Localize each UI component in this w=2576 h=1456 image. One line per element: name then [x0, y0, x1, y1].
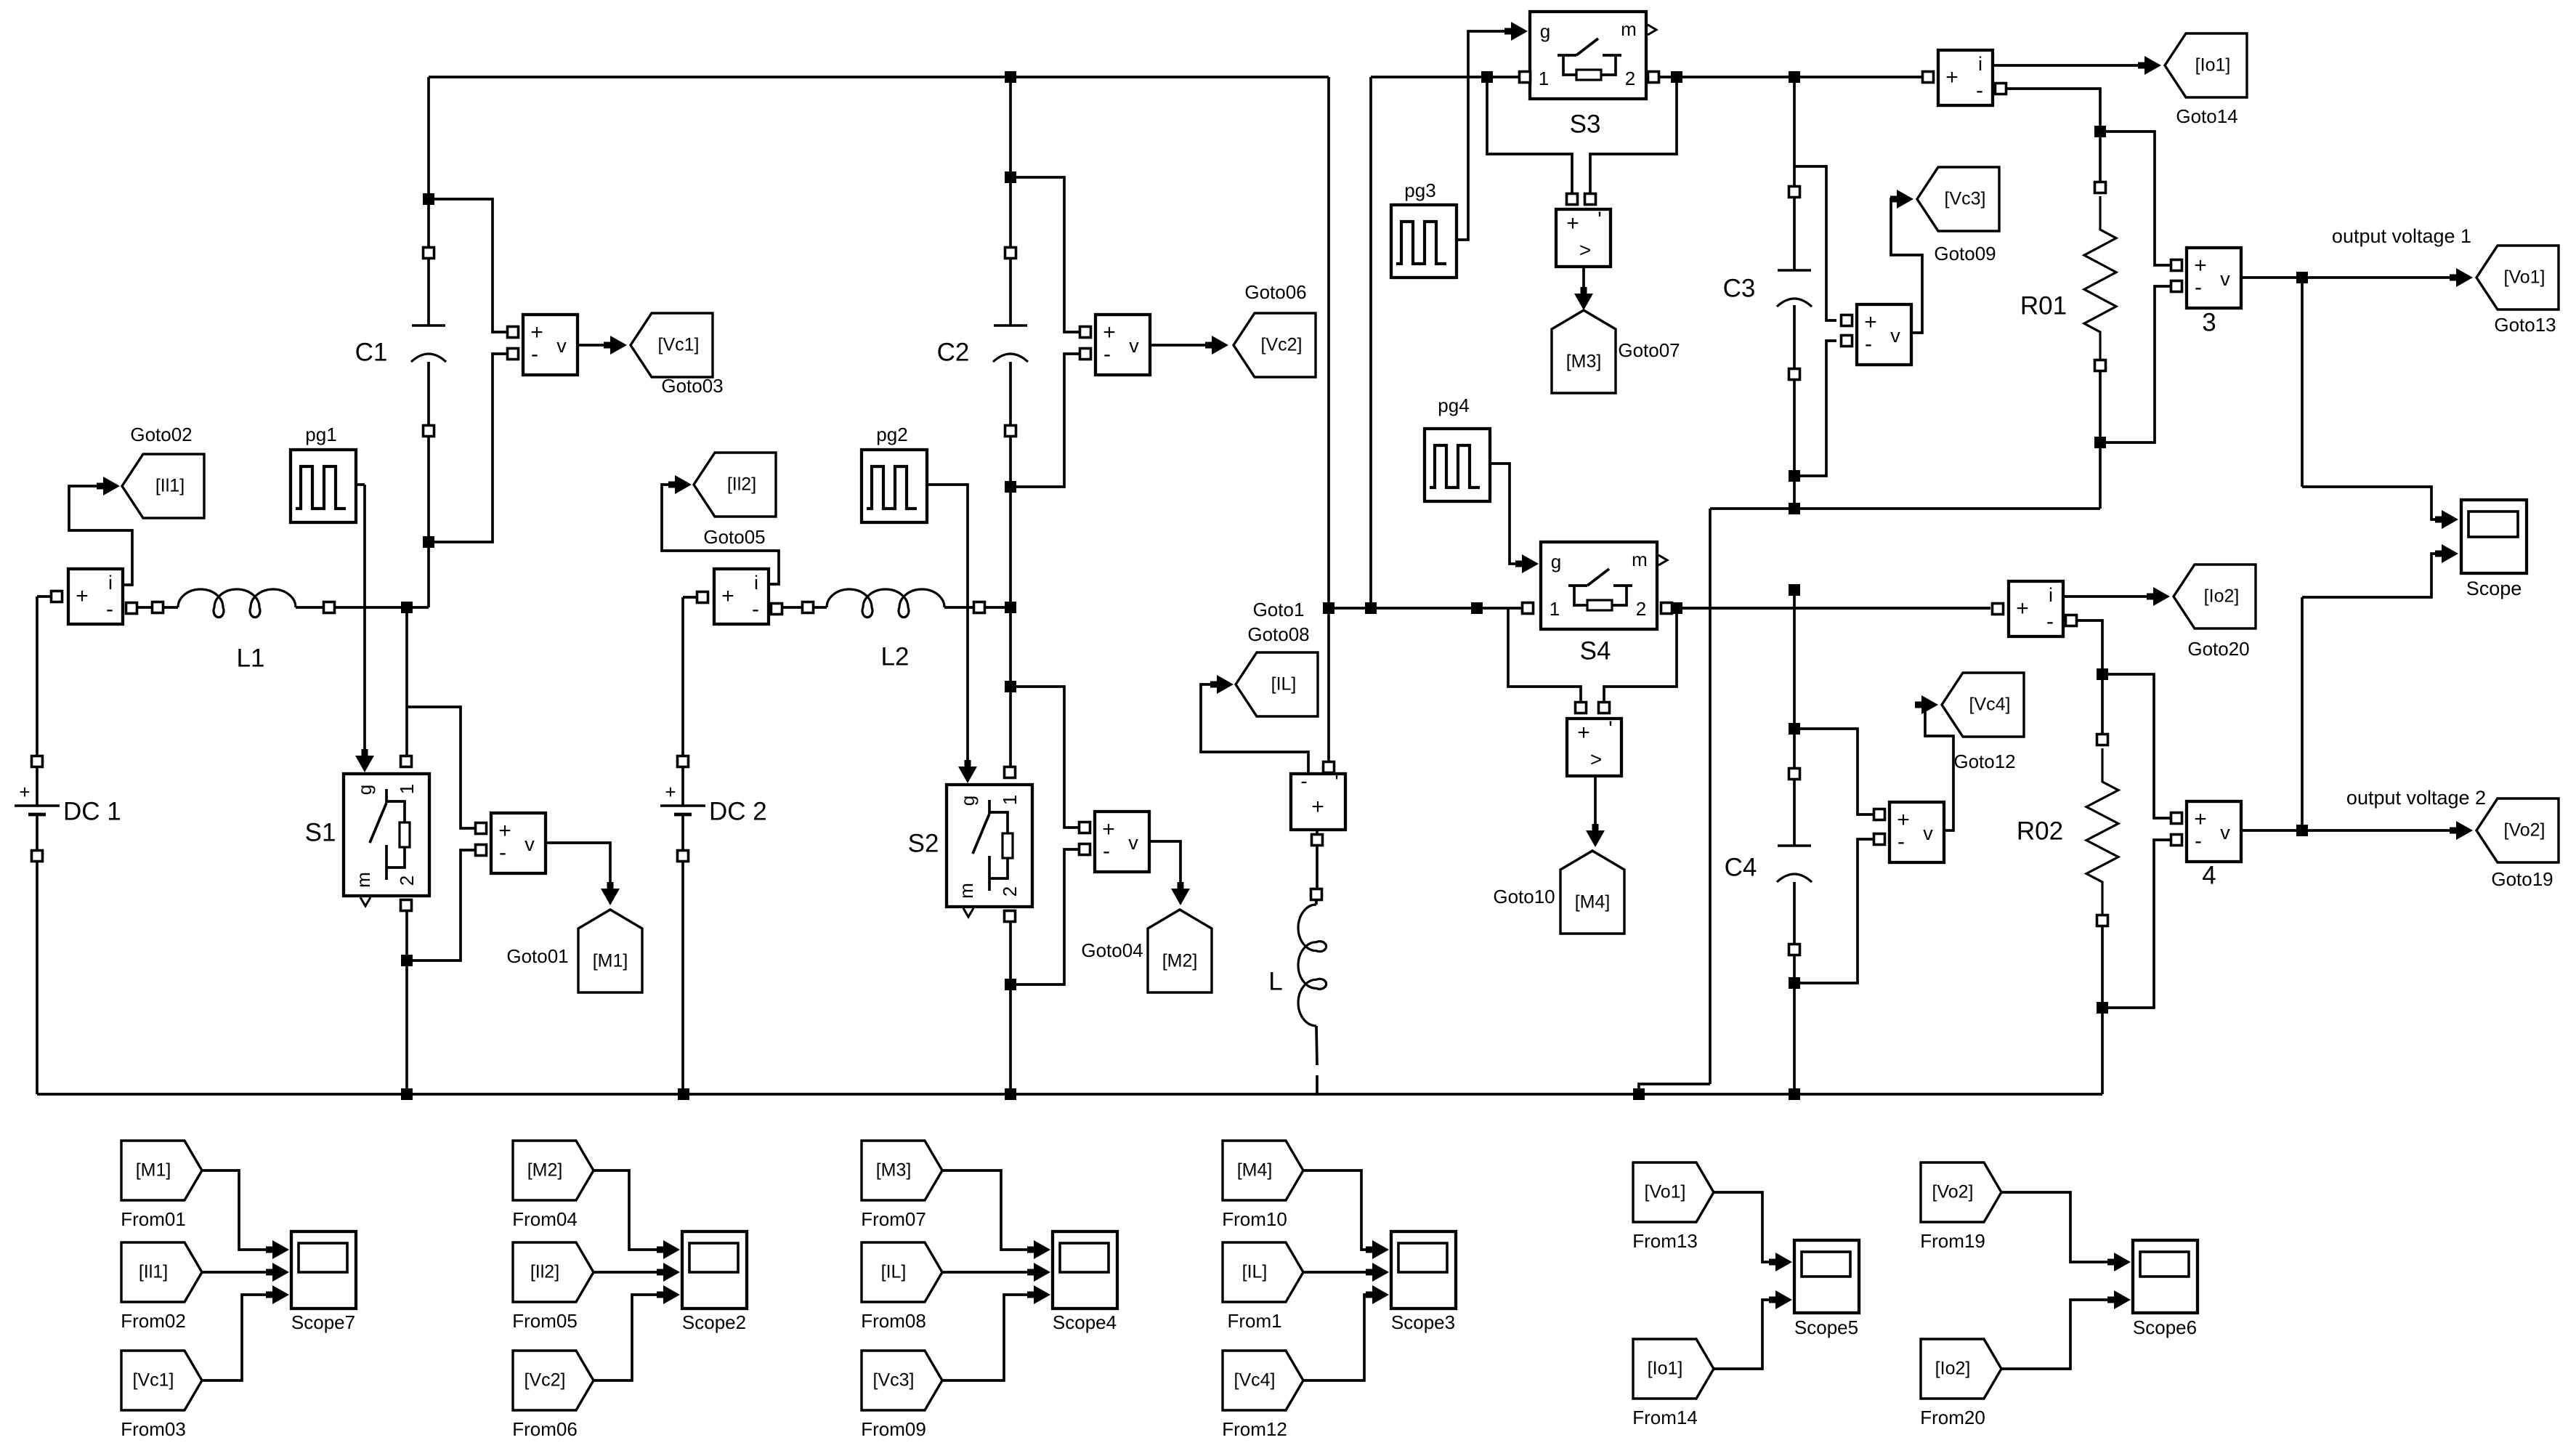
svg-text:From1: From1	[1227, 1310, 1281, 1332]
svg-text:Scope: Scope	[2466, 578, 2522, 599]
svg-text:[M4]: [M4]	[1575, 892, 1611, 913]
svg-text:1: 1	[396, 784, 418, 794]
svg-text:Goto20: Goto20	[2187, 638, 2249, 660]
svg-text:From04: From04	[512, 1208, 578, 1230]
svg-text:Goto12: Goto12	[1953, 751, 2015, 772]
svg-text:[Io2]: [Io2]	[2204, 586, 2240, 607]
svg-text:[Il2]: [Il2]	[727, 474, 756, 495]
svg-text:Goto01: Goto01	[506, 945, 568, 967]
svg-text:From19: From19	[1920, 1230, 1985, 1252]
svg-text:': '	[1608, 717, 1613, 741]
svg-text:Scope7: Scope7	[291, 1311, 355, 1333]
svg-text:i: i	[1978, 53, 1982, 75]
svg-text:-: -	[752, 597, 759, 621]
svg-text:From10: From10	[1222, 1208, 1287, 1230]
svg-text:L1: L1	[237, 644, 265, 672]
svg-text:-: -	[1897, 830, 1905, 854]
svg-text:From12: From12	[1222, 1418, 1287, 1440]
svg-text:Goto08: Goto08	[1247, 623, 1309, 645]
svg-text:[M3]: [M3]	[876, 1160, 912, 1181]
svg-text:[Io1]: [Io1]	[2195, 55, 2231, 76]
svg-text:+: +	[1864, 310, 1877, 334]
svg-text:v: v	[1923, 822, 1933, 844]
svg-text:[Vc2]: [Vc2]	[524, 1370, 566, 1391]
svg-text:From09: From09	[861, 1418, 926, 1440]
svg-text:1: 1	[1539, 68, 1549, 89]
svg-text:Goto05: Goto05	[703, 526, 765, 548]
svg-text:Scope3: Scope3	[1391, 1311, 1455, 1333]
svg-text:pg3: pg3	[1404, 179, 1435, 201]
svg-text:Scope6: Scope6	[2133, 1317, 2197, 1338]
svg-text:[IL]: [IL]	[881, 1262, 907, 1282]
svg-text:L2: L2	[881, 642, 910, 671]
svg-text:From02: From02	[121, 1310, 186, 1332]
svg-text:C2: C2	[937, 338, 970, 366]
svg-text:Goto07: Goto07	[1618, 339, 1680, 361]
svg-text:From06: From06	[512, 1418, 578, 1440]
svg-text:[M3]: [M3]	[1566, 352, 1602, 372]
svg-text:+: +	[498, 819, 511, 843]
svg-text:2: 2	[1625, 68, 1635, 89]
svg-text:output voltage 1: output voltage 1	[2332, 225, 2471, 247]
svg-text:From03: From03	[121, 1418, 186, 1440]
svg-text:-: -	[2195, 275, 2202, 299]
svg-text:>: >	[1579, 238, 1591, 261]
svg-text:+: +	[1102, 817, 1115, 841]
svg-text:[Vo1]: [Vo1]	[1645, 1182, 1686, 1202]
svg-text:C3: C3	[1723, 274, 1756, 302]
svg-text:[Io1]: [Io1]	[1648, 1359, 1683, 1379]
svg-text:Scope5: Scope5	[1794, 1317, 1858, 1338]
svg-text:Goto19: Goto19	[2491, 868, 2553, 890]
svg-text:[Vc4]: [Vc4]	[1969, 695, 2011, 715]
svg-text:[Vc3]: [Vc3]	[873, 1370, 915, 1391]
svg-text:Goto1: Goto1	[1253, 599, 1305, 620]
svg-text:-: -	[1103, 342, 1111, 366]
svg-text:L: L	[1268, 967, 1282, 995]
svg-text:[Il2]: [Il2]	[530, 1262, 559, 1282]
svg-text:Scope2: Scope2	[682, 1311, 746, 1333]
svg-text:C4: C4	[1725, 853, 1757, 881]
svg-text:+: +	[1945, 65, 1959, 89]
svg-text:R01: R01	[2020, 291, 2067, 320]
svg-text:Goto14: Goto14	[2176, 105, 2237, 127]
svg-text:S2: S2	[908, 829, 939, 857]
svg-text:DC 2: DC 2	[709, 797, 767, 825]
svg-text:-: -	[106, 597, 113, 621]
svg-text:-: -	[531, 342, 538, 366]
svg-text:R02: R02	[2017, 817, 2063, 845]
svg-text:i: i	[108, 572, 113, 594]
svg-text:Scope4: Scope4	[1053, 1311, 1117, 1333]
svg-text:S4: S4	[1580, 636, 1611, 665]
svg-text:Goto06: Goto06	[1244, 281, 1306, 303]
svg-text:v: v	[524, 833, 535, 855]
svg-text:S3: S3	[1570, 110, 1601, 138]
svg-text:-: -	[1976, 78, 1983, 102]
svg-text:+: +	[2194, 807, 2207, 831]
svg-text:v: v	[1129, 335, 1139, 357]
svg-text:[Vo2]: [Vo2]	[2504, 820, 2545, 841]
svg-text:g: g	[957, 796, 979, 806]
svg-text:v: v	[1128, 832, 1138, 854]
svg-text:From08: From08	[861, 1310, 926, 1332]
svg-text:1: 1	[1550, 598, 1560, 620]
svg-text:[Vc1]: [Vc1]	[133, 1370, 174, 1391]
svg-text:Goto02: Goto02	[130, 424, 192, 445]
svg-text:+: +	[1103, 320, 1116, 344]
svg-text:Goto04: Goto04	[1081, 939, 1143, 961]
svg-text:m: m	[352, 872, 374, 888]
svg-text:+: +	[1897, 808, 1910, 832]
svg-text:Goto09: Goto09	[1934, 243, 1996, 264]
svg-text:[M4]: [M4]	[1237, 1160, 1273, 1181]
svg-text:[IL]: [IL]	[1242, 1262, 1268, 1282]
svg-text:g: g	[354, 785, 376, 795]
svg-text:From13: From13	[1632, 1230, 1698, 1252]
svg-text:-: -	[2046, 610, 2054, 634]
svg-text:[Il1]: [Il1]	[139, 1262, 168, 1282]
svg-text:From07: From07	[861, 1208, 926, 1230]
svg-text:+: +	[1566, 211, 1579, 235]
svg-text:+: +	[1577, 721, 1590, 745]
svg-text:3: 3	[2202, 308, 2216, 336]
svg-text:2: 2	[396, 875, 418, 886]
svg-text:[IL]: [IL]	[1271, 674, 1297, 695]
svg-text:[Vc2]: [Vc2]	[1261, 335, 1303, 355]
svg-text:[Vc1]: [Vc1]	[658, 335, 700, 355]
svg-text:-: -	[1300, 769, 1307, 792]
svg-text:output voltage 2: output voltage 2	[2346, 787, 2486, 809]
svg-text:pg1: pg1	[305, 424, 336, 445]
svg-text:g: g	[1551, 551, 1561, 573]
svg-text:m: m	[1621, 18, 1637, 40]
svg-text:+: +	[76, 584, 89, 608]
svg-text:-: -	[2195, 829, 2202, 853]
svg-text:-: -	[499, 841, 506, 865]
svg-text:4: 4	[2202, 861, 2216, 889]
svg-text:[Vo2]: [Vo2]	[1932, 1182, 1974, 1202]
svg-text:[Vc4]: [Vc4]	[1234, 1370, 1276, 1391]
svg-text:pg4: pg4	[1438, 395, 1469, 416]
svg-text:[Il1]: [Il1]	[155, 476, 185, 496]
svg-text:g: g	[1540, 20, 1550, 42]
svg-text:v: v	[2220, 268, 2230, 290]
svg-text:-: -	[1103, 839, 1110, 863]
svg-text:Goto03: Goto03	[661, 375, 723, 397]
svg-text:[M1]: [M1]	[136, 1160, 171, 1181]
svg-text:2: 2	[1636, 598, 1646, 620]
svg-text:+: +	[721, 584, 734, 608]
svg-text:[Vc3]: [Vc3]	[1945, 189, 1986, 209]
svg-text:[M1]: [M1]	[593, 951, 628, 971]
svg-text:+: +	[2016, 596, 2029, 620]
svg-text:v: v	[2220, 822, 2230, 844]
svg-text:Goto13: Goto13	[2494, 314, 2556, 336]
svg-text:[Io2]: [Io2]	[1935, 1359, 1971, 1379]
svg-text:From20: From20	[1920, 1407, 1985, 1428]
svg-text:[M2]: [M2]	[1162, 951, 1198, 971]
svg-text:': '	[1597, 208, 1602, 232]
svg-text:+: +	[530, 320, 543, 344]
svg-text:>: >	[1590, 748, 1602, 770]
svg-text:DC 1: DC 1	[63, 797, 121, 825]
svg-text:2: 2	[999, 886, 1021, 897]
svg-text:pg2: pg2	[876, 424, 907, 445]
svg-text:1: 1	[999, 795, 1021, 805]
svg-text:S1: S1	[305, 818, 336, 846]
svg-text:-: -	[1865, 332, 1872, 356]
svg-text:Goto10: Goto10	[1493, 886, 1555, 907]
svg-text:i: i	[754, 572, 758, 594]
svg-text:+: +	[1311, 795, 1324, 819]
svg-text:+: +	[19, 781, 30, 803]
svg-text:m: m	[1632, 549, 1648, 570]
svg-text:+: +	[665, 781, 676, 803]
svg-text:v: v	[1890, 325, 1900, 347]
svg-text:[M2]: [M2]	[527, 1160, 563, 1181]
svg-text:v: v	[556, 335, 567, 357]
svg-text:C1: C1	[355, 338, 388, 366]
svg-text:[Vo1]: [Vo1]	[2504, 267, 2545, 288]
svg-text:From14: From14	[1632, 1407, 1698, 1428]
svg-text:m: m	[955, 883, 977, 899]
svg-text:+: +	[2194, 254, 2207, 278]
svg-text:From05: From05	[512, 1310, 578, 1332]
svg-text:i: i	[2049, 584, 2053, 606]
svg-text:From01: From01	[121, 1208, 186, 1230]
